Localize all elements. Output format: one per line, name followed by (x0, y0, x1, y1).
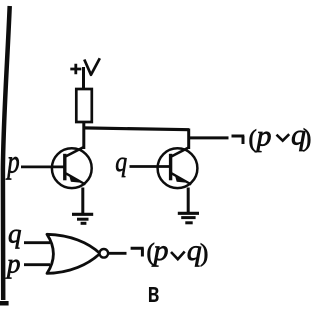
wire q to Q2 base (130, 165, 171, 168)
svg-text:в: в (148, 277, 160, 309)
svg-text:): ) (303, 125, 311, 152)
ground (Q2) (178, 213, 199, 223)
left border line (3, 6, 10, 300)
svg-text:): ) (200, 240, 208, 267)
svg-text:p: p (255, 120, 272, 153)
wire p to Q1 base (21, 165, 65, 168)
left border foot (0, 301, 9, 306)
wire Q2 emitter to ground (187, 188, 190, 214)
label not(p or q) bottom (131, 234, 209, 267)
wire resistor to collector of Q1 (82, 122, 85, 149)
label not(p or q) top (232, 119, 312, 154)
svg-text:p: p (152, 234, 169, 267)
wire Q1 emitter to ground (81, 188, 84, 215)
wire q to NOR gate (24, 241, 50, 244)
power label +V (70, 58, 100, 75)
svg-text:p: p (6, 144, 20, 180)
wire p to NOR gate (24, 263, 50, 266)
svg-text:q: q (8, 219, 22, 249)
svg-text:q: q (115, 145, 127, 178)
NOR gate output bubble (100, 249, 109, 258)
wire NOR output (108, 252, 126, 255)
NOR gate U1 body (47, 234, 100, 273)
wire output to not(p or q) (188, 136, 229, 139)
wire +V to resistor (82, 67, 85, 90)
wire collector rail (83, 128, 189, 130)
wire rail down to Q2 collector (187, 129, 190, 150)
transistor Q2 (158, 147, 198, 188)
resistor (76, 89, 92, 122)
svg-text:p: p (5, 248, 21, 278)
transistor Q1 (52, 147, 92, 188)
ground (Q1) (72, 214, 93, 223)
